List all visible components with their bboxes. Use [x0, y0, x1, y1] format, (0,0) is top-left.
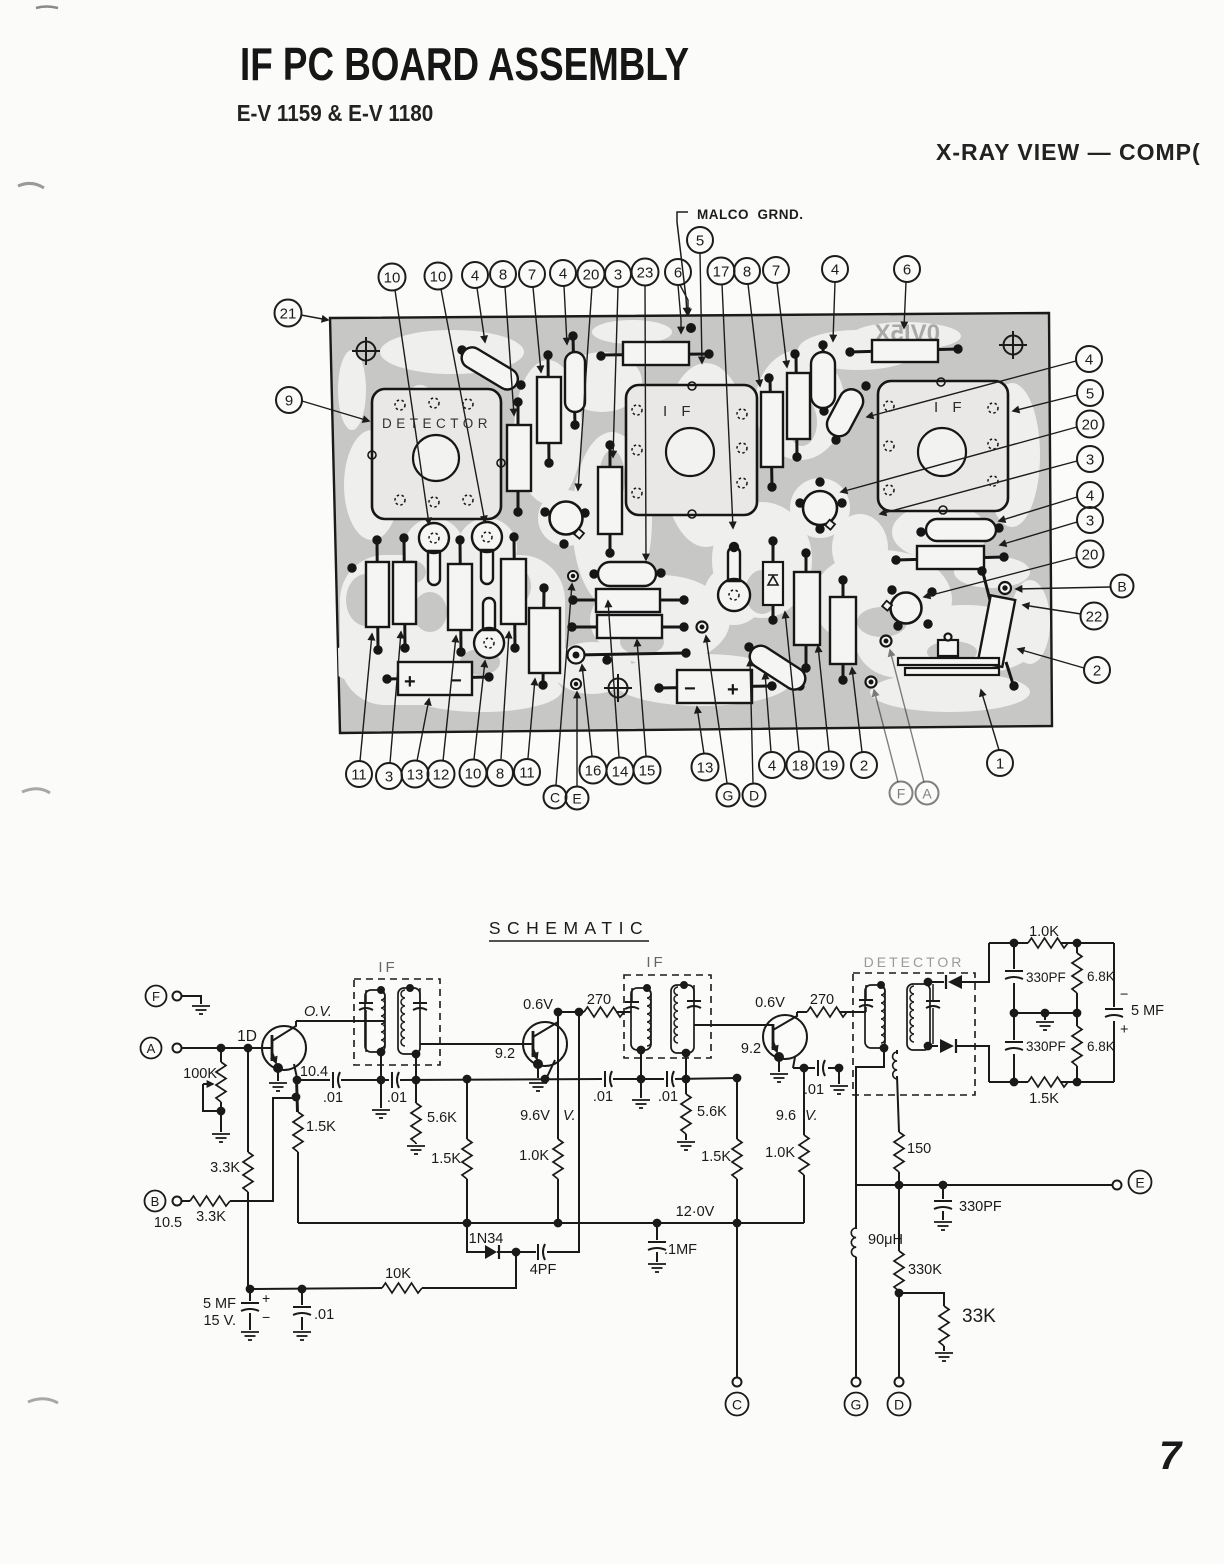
- svg-text:1.5K: 1.5K: [701, 1149, 731, 1165]
- det primary cap: [859, 985, 873, 1012]
- malco ground lug dot: [687, 324, 696, 333]
- balloon 4 t2: [550, 260, 576, 286]
- balloon 6 t1: [665, 259, 691, 285]
- scan smudge left edge top: [18, 183, 44, 188]
- node dot q3 gnd: [836, 1065, 843, 1072]
- svg-text:3.3K: 3.3K: [196, 1209, 226, 1225]
- transistor Q on board left: [541, 502, 589, 549]
- electrolytic capacitor bottom: [655, 670, 776, 703]
- svg-text:7: 7: [772, 263, 780, 280]
- keyhole pad 1: [419, 523, 449, 585]
- ground Q3: [770, 1057, 788, 1082]
- leader 4 t3: [833, 282, 835, 341]
- IF1 primary coil: [365, 987, 385, 1080]
- leader 3 r2: [1000, 522, 1077, 545]
- svg-text:+: +: [727, 679, 739, 701]
- svg-text:E-V 1159 & E-V 1180: E-V 1159 & E-V 1180: [237, 100, 434, 127]
- ground .1MF: [648, 1264, 666, 1272]
- balloon 2 r: [1084, 657, 1110, 683]
- svg-text:3: 3: [385, 769, 393, 786]
- Q1 emitter dot: [274, 1064, 282, 1072]
- svg-text:5 MF: 5 MF: [203, 1296, 236, 1312]
- balloon 17 t: [708, 258, 735, 285]
- balloon 1: [987, 750, 1013, 776]
- leader E b: [576, 692, 578, 786]
- Q2 emitter dot: [534, 1060, 542, 1068]
- resistor 1.0K top: [1028, 924, 1068, 948]
- bus dots: [464, 1220, 471, 1227]
- balloon 4 r1: [1076, 346, 1102, 372]
- balloon G b: [717, 784, 740, 807]
- cap 330PF third: [934, 1185, 1002, 1220]
- svg-text:I F: I F: [663, 403, 696, 420]
- svg-text:.01: .01: [593, 1089, 613, 1105]
- rail dots bottom: [1011, 1079, 1018, 1086]
- svg-text:11: 11: [519, 765, 535, 782]
- balloon C b: [544, 786, 567, 809]
- balloon F b light: [890, 782, 913, 805]
- balloon 4 b: [759, 752, 785, 778]
- leader 4 t2: [564, 286, 567, 344]
- svg-text:.01: .01: [387, 1090, 407, 1106]
- ground 33K: [935, 1353, 953, 1361]
- resistor 10K: [382, 1266, 422, 1293]
- svg-text:10.5: 10.5: [154, 1215, 182, 1231]
- resistor 1.5K third: [701, 1078, 742, 1377]
- svg-text:19: 19: [822, 758, 839, 775]
- balloon 19: [817, 752, 844, 779]
- pad dot bottom strip: [603, 656, 611, 664]
- inductor 90uH: [851, 1185, 903, 1377]
- transistor Q3: [763, 1012, 807, 1068]
- bottom rail: [989, 1081, 1114, 1083]
- svg-text:90μH: 90μH: [868, 1232, 903, 1248]
- svg-text:E: E: [1135, 1175, 1144, 1191]
- resistor column 2: [393, 534, 416, 652]
- node dot 100K tap: [218, 1045, 225, 1052]
- transistor Q2: [523, 1012, 567, 1077]
- det primary bottom wire to E rail: [856, 1048, 884, 1185]
- rail dots top: [1011, 940, 1018, 947]
- leader B r: [1016, 587, 1110, 589]
- svg-text:1.5K: 1.5K: [431, 1151, 461, 1167]
- svg-text:G: G: [723, 788, 734, 804]
- svg-text:1.0K: 1.0K: [1029, 924, 1059, 940]
- svg-text:6: 6: [903, 262, 911, 279]
- svg-text:9.6: 9.6: [776, 1108, 796, 1124]
- mounting crosshair bottom-center: [604, 674, 632, 702]
- svg-text:G: G: [851, 1397, 862, 1413]
- electrolytic capacitor left: [383, 662, 493, 695]
- node dot Q1 out: [294, 1077, 301, 1084]
- leader 6 t1b: [678, 285, 681, 333]
- IF1 secondary cap: [413, 988, 427, 1010]
- svg-text:4: 4: [768, 758, 776, 775]
- leader 4 r1: [867, 361, 1076, 417]
- resistor 100K: [183, 1048, 226, 1132]
- cap .1MF: [648, 1223, 697, 1262]
- vertical capacitor pill: [565, 332, 585, 429]
- balloon B r: [1111, 575, 1134, 598]
- resistor R8 vertical: [507, 398, 531, 516]
- stacked rect bottom: [568, 615, 688, 638]
- terminal C open circle: [733, 1378, 742, 1387]
- resistor vertical mid-top a: [761, 374, 783, 491]
- tilted pill bottom middle: [745, 642, 810, 694]
- resistor 3.3K horizontal: [182, 1196, 230, 1225]
- leader 20 r2: [924, 557, 1077, 597]
- svg-text:2: 2: [860, 758, 868, 775]
- svg-text:22: 22: [1086, 609, 1103, 626]
- tilted pill near right can: [823, 382, 870, 444]
- node dot 3.3K tap: [245, 1045, 252, 1052]
- resistor 5.6K first: [411, 1103, 457, 1144]
- leader 3 r1: [880, 461, 1077, 514]
- leader A b: [890, 650, 924, 782]
- leader 10 t2: [441, 289, 485, 522]
- svg-text:F: F: [152, 989, 160, 1004]
- svg-text:2: 2: [1093, 663, 1101, 680]
- svg-text:3.3K: 3.3K: [210, 1160, 240, 1176]
- leader 4 b: [765, 673, 771, 752]
- terminal D: [888, 1393, 911, 1416]
- svg-text:IF: IF: [646, 954, 665, 971]
- balloon 10 b: [460, 760, 487, 787]
- node dot q3 rail: [801, 1065, 808, 1072]
- svg-text:3: 3: [1086, 513, 1094, 530]
- det secondary cap: [926, 984, 940, 1044]
- IF1 transformer dashed box: [354, 979, 440, 1065]
- node dot 1N34: [513, 1249, 520, 1256]
- leader 16: [582, 665, 592, 756]
- svg-text:4: 4: [1085, 352, 1093, 369]
- transistor Q on board middle: [796, 478, 846, 533]
- svg-text:150: 150: [907, 1141, 931, 1157]
- balloon 10 t1: [379, 264, 406, 291]
- leader 9: [302, 401, 369, 421]
- svg-text:10: 10: [384, 270, 401, 287]
- resistor 1.5K first: [293, 1080, 336, 1223]
- right rail 5MF: [1105, 943, 1164, 1082]
- svg-text:4: 4: [1086, 488, 1094, 505]
- resistor mid-right a: [794, 549, 820, 672]
- leader 18: [785, 612, 799, 751]
- balloon 7 t2: [763, 257, 789, 283]
- svg-text:.01: .01: [323, 1090, 343, 1106]
- wire Q1 node down: [296, 1076, 297, 1112]
- leader 11 b2: [528, 679, 535, 758]
- balloon 3 b: [376, 763, 402, 789]
- svg-text:8: 8: [499, 267, 507, 284]
- diode bottom: [928, 1039, 989, 1082]
- svg-text:E: E: [572, 791, 581, 807]
- svg-text:DETECTOR: DETECTOR: [864, 954, 965, 970]
- IF2 transformer dashed box: [624, 975, 711, 1058]
- svg-text:5: 5: [696, 233, 704, 250]
- AGC rail left: [297, 1078, 737, 1080]
- svg-text:13: 13: [407, 767, 424, 784]
- balloon 7 t1: [519, 261, 545, 287]
- svg-text:C: C: [732, 1397, 742, 1413]
- resistor 5.6K second: [681, 1094, 727, 1140]
- leader 4 r2: [999, 497, 1077, 521]
- det input wire: [865, 1011, 866, 1013]
- balloon 6 t2: [894, 256, 920, 282]
- balloon 4 t3: [822, 256, 848, 282]
- balloon 20 r2: [1077, 541, 1104, 568]
- svg-text:1N34: 1N34: [469, 1231, 504, 1247]
- balloon 16: [580, 757, 607, 784]
- svg-text:11: 11: [351, 767, 367, 784]
- balloon 21: [275, 300, 302, 327]
- svg-text:A: A: [922, 786, 932, 802]
- svg-text:−: −: [262, 1309, 270, 1325]
- terminal D open circle: [895, 1378, 904, 1387]
- det primary coil: [865, 982, 887, 1051]
- leader 3 b: [390, 632, 401, 763]
- svg-text:9.2: 9.2: [741, 1041, 761, 1057]
- transistor Q on board right: [882, 586, 936, 630]
- leader 21: [301, 315, 328, 320]
- balloon 22: [1081, 603, 1108, 630]
- leader 2 r: [1018, 649, 1084, 668]
- leader 17: [722, 284, 733, 528]
- leader 8 t2: [748, 284, 760, 386]
- Q3 emitter rail: [793, 1067, 839, 1069]
- diode top: [928, 943, 989, 989]
- leader F b: [874, 690, 898, 782]
- cap .01 a: [323, 1072, 343, 1106]
- resistor 1.5K bottom: [1028, 1077, 1068, 1107]
- stacked rect top: [569, 589, 688, 612]
- balloon 23 t: [632, 259, 659, 286]
- svg-text:6: 6: [674, 265, 682, 282]
- E rail dots: [896, 1182, 903, 1189]
- svg-text:.01: .01: [804, 1082, 824, 1098]
- svg-text:330PF: 330PF: [959, 1199, 1002, 1215]
- svg-text:9: 9: [285, 393, 293, 410]
- leader 20 r1: [841, 427, 1077, 492]
- svg-text:V.: V.: [563, 1108, 576, 1124]
- ground F: [192, 1006, 210, 1014]
- leader 13 b2: [697, 707, 704, 754]
- IF2 out wire to Q3: [694, 1024, 774, 1026]
- svg-text:MALCO GRND.: MALCO GRND.: [697, 207, 804, 222]
- keyhole pad 2: [472, 522, 502, 584]
- det coil tap inductor: [893, 1050, 899, 1132]
- terminal B: [145, 1191, 182, 1212]
- horizontal pill center: [590, 562, 665, 586]
- eyelet a: [697, 622, 708, 633]
- leader 10 t1: [395, 290, 429, 524]
- diode 1N34: [467, 1223, 516, 1259]
- Q3 emitter dot: [775, 1053, 783, 1061]
- diode component: [763, 537, 783, 624]
- svg-text:−: −: [684, 678, 696, 700]
- svg-text:14: 14: [612, 764, 629, 781]
- gray pockets inside traces: [346, 398, 977, 675]
- svg-text:X-RAY VIEW — COMP(: X-RAY VIEW — COMP(: [936, 139, 1201, 165]
- balloon 14: [607, 758, 634, 785]
- svg-text:9.2: 9.2: [495, 1046, 515, 1062]
- resistor 270 second: [797, 1007, 866, 1017]
- balloon E b: [566, 787, 589, 810]
- Q1 collector wire to IF1: [296, 1020, 384, 1022]
- ground q3 rail: [830, 1068, 848, 1094]
- node dot B wire: [293, 1094, 300, 1101]
- svg-text:+: +: [262, 1290, 270, 1306]
- trimmer bottom right: [898, 634, 999, 676]
- wire A to Q1 base: [182, 1047, 273, 1049]
- svg-text:0.6V: 0.6V: [523, 997, 553, 1013]
- ground 5.6K second: [677, 1142, 695, 1150]
- terminal F: [146, 986, 182, 1007]
- svg-text:1.5K: 1.5K: [306, 1119, 336, 1135]
- leader 11 b1: [360, 634, 372, 761]
- left rail 330PF column: [1005, 943, 1066, 1082]
- svg-text:SCHEMATIC: SCHEMATIC: [489, 918, 649, 938]
- cap .01 c: [593, 1071, 613, 1105]
- balloon 9: [276, 387, 302, 413]
- svg-text:0.6V: 0.6V: [755, 995, 785, 1011]
- svg-text:16: 16: [585, 763, 602, 780]
- svg-text:23: 23: [637, 265, 654, 282]
- E open circle: [1113, 1181, 1122, 1190]
- svg-text:C: C: [550, 790, 560, 806]
- svg-text:5.6K: 5.6K: [697, 1104, 727, 1120]
- svg-text:A: A: [147, 1041, 156, 1056]
- node dot 33K tap: [896, 1290, 903, 1297]
- svg-text:18: 18: [792, 758, 809, 775]
- keyhole pad 4 (stem up, middle): [718, 543, 750, 611]
- svg-text:D: D: [749, 788, 759, 804]
- detector dashed box: [853, 973, 975, 1095]
- leader 15: [637, 640, 646, 756]
- ground under IF1 primary: [372, 1080, 390, 1118]
- leader 3 t: [613, 287, 618, 457]
- resistor vertical mid-top b: [787, 350, 810, 461]
- top rail detector network: [989, 942, 1114, 944]
- ground 5MF: [241, 1332, 259, 1340]
- svg-text:IF PC BOARD ASSEMBLY: IF PC BOARD ASSEMBLY: [240, 38, 689, 90]
- ground 5.6K first: [407, 1146, 425, 1154]
- mid rail 6.8K column: [1072, 943, 1115, 1082]
- balloon 11 b2: [514, 759, 540, 785]
- terminal A: [141, 1038, 182, 1059]
- resistor tall center-left: [529, 584, 560, 689]
- cap 4PF: [516, 1012, 579, 1278]
- IF2 primary coil: [631, 985, 651, 1079]
- terminal C: [726, 1393, 749, 1416]
- svg-text:3: 3: [1086, 452, 1094, 469]
- eyelet d: [999, 582, 1011, 594]
- balloon 18: [787, 752, 814, 779]
- leader 4 t1: [477, 288, 485, 342]
- horizontal pill right: [917, 519, 1003, 541]
- svg-text:4: 4: [831, 262, 839, 279]
- svg-text:IF: IF: [378, 959, 397, 976]
- leader 6 t1a: [680, 285, 688, 315]
- leader D b: [750, 660, 753, 783]
- malco leader: [677, 212, 688, 314]
- balloon 13 b1: [402, 761, 429, 788]
- terminal G: [845, 1393, 868, 1416]
- svg-text:8: 8: [743, 264, 751, 281]
- svg-text:DETECTOR: DETECTOR: [382, 416, 492, 431]
- leader 5 t: [700, 253, 702, 363]
- resistor horizontal top right: [846, 340, 962, 362]
- balloon 3 t: [605, 261, 631, 287]
- svg-text:10: 10: [465, 766, 482, 783]
- balloon 5 t: [687, 227, 713, 253]
- capacitor pill mid-top: [811, 341, 835, 415]
- balloon 3 r2: [1077, 507, 1103, 533]
- ground Q1: [269, 1083, 287, 1091]
- svg-text:1.0K: 1.0K: [765, 1145, 795, 1161]
- terminal G open circle: [852, 1378, 861, 1387]
- balloon 3 r1: [1077, 446, 1103, 472]
- pad ring C: [568, 571, 578, 581]
- svg-text:20: 20: [1082, 417, 1099, 434]
- mounting crosshair top-right: [999, 331, 1027, 359]
- svg-text:5.6K: 5.6K: [427, 1110, 457, 1126]
- balloon 8 b: [487, 760, 513, 786]
- ground .01 bottom: [293, 1332, 311, 1340]
- svg-text:4PF: 4PF: [530, 1262, 557, 1278]
- ground 100K: [212, 1134, 230, 1142]
- leader C b: [556, 584, 572, 785]
- svg-text:.01: .01: [314, 1307, 334, 1323]
- svg-text:20: 20: [1082, 547, 1099, 564]
- balloon 13 b2: [692, 754, 719, 781]
- ground 330PF third: [934, 1222, 952, 1230]
- svg-text:4: 4: [559, 266, 567, 283]
- svg-text:B: B: [151, 1194, 160, 1209]
- leader 8 t1: [505, 287, 514, 415]
- pad ring E: [571, 679, 581, 689]
- svg-text:1.0K: 1.0K: [519, 1148, 549, 1164]
- leader 8 b: [501, 632, 509, 759]
- detector shield can: [368, 389, 505, 519]
- tilted resistor far right: [978, 567, 1018, 690]
- svg-text:10: 10: [430, 269, 447, 286]
- svg-text:3: 3: [614, 267, 622, 284]
- svg-text:+: +: [1120, 1022, 1128, 1038]
- resistor column 4: [501, 533, 526, 652]
- leader 10 b: [474, 661, 485, 759]
- leader 2 b: [852, 668, 862, 752]
- leader 6 t2: [904, 282, 906, 328]
- cap .01 b: [387, 1072, 407, 1106]
- eyelet with long lead: [568, 647, 691, 664]
- svg-text:330PF: 330PF: [1026, 970, 1066, 985]
- node dot 1.0K tap: [555, 1009, 562, 1016]
- svg-text:330PF: 330PF: [1026, 1039, 1066, 1054]
- balloon 20 t: [578, 261, 605, 288]
- balloon D b: [743, 784, 766, 807]
- scan smudge left edge bottom: [28, 1399, 58, 1403]
- svg-text:7: 7: [528, 267, 536, 284]
- scan smudge top-left corner: [36, 7, 58, 9]
- IF1 primary cap: [359, 990, 373, 1052]
- balloon 12: [428, 761, 455, 788]
- balloon 4 t1: [462, 262, 488, 288]
- eyelet b: [881, 636, 892, 647]
- svg-text:270: 270: [810, 992, 834, 1008]
- balloon 8 t1: [490, 261, 516, 287]
- svg-text:−: −: [1120, 987, 1128, 1003]
- svg-text:.01: .01: [658, 1089, 678, 1105]
